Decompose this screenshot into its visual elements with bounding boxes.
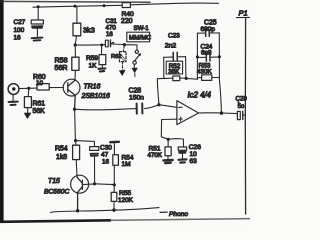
transistor T15 [71, 175, 95, 210]
junction: R55 / bottom rail [112, 208, 115, 211]
svg-text:100: 100 [14, 27, 25, 34]
junction: 3k3 / R58 / C31 wire [74, 43, 77, 46]
wire: plus input path [161, 119, 177, 139]
ground (jack) [12, 94, 14, 101]
wire to switch [124, 45, 137, 50]
op-amp IC2 [177, 101, 199, 125]
wire: node to C31 [75, 44, 105, 46]
junction: rail dot [103, 4, 106, 7]
svg-text:16: 16 [106, 32, 113, 38]
resistor R56 [113, 144, 119, 184]
svg-text:680p: 680p [201, 26, 216, 33]
capacitor C31 [105, 40, 123, 47]
junction: group1/group2 [185, 77, 188, 80]
svg-text:2SB1016: 2SB1016 [81, 93, 111, 100]
svg-text:16: 16 [102, 159, 110, 166]
resistor R62 (dashed) [119, 46, 126, 69]
svg-text:C28: C28 [129, 88, 142, 95]
svg-text:T15: T15 [48, 178, 60, 185]
junction: R59 top [100, 44, 103, 47]
ground arrow (R61) [24, 113, 30, 118]
svg-text:63: 63 [190, 158, 198, 165]
capacitor C30 [76, 141, 99, 184]
capacitor C26 [178, 147, 186, 159]
svg-text:C26: C26 [189, 144, 201, 151]
junction: rail / 3k3 column [74, 5, 77, 8]
transistor TR16 [63, 79, 80, 109]
svg-text:56R: 56R [55, 64, 68, 72]
svg-text:3k3: 3k3 [83, 26, 95, 35]
junction: C24 branch dots [196, 55, 199, 58]
capacitor C25 [197, 30, 219, 37]
svg-text:470K: 470K [148, 152, 163, 159]
node: group1 rails [164, 57, 186, 78]
svg-text:TR16: TR16 [84, 84, 101, 91]
svg-text:SW-1: SW-1 [134, 25, 150, 32]
page top border [0, 0, 150, 3]
svg-text:430K: 430K [197, 69, 213, 76]
capacitor C28 [137, 103, 159, 113]
resistor R52 [173, 76, 180, 81]
svg-text:10: 10 [36, 80, 44, 87]
resistor R61 [24, 88, 31, 113]
node P1 underline [237, 16, 251, 18]
resistor 3k3 [73, 7, 81, 45]
junction: C28 / feedback / op-amp minus [157, 103, 160, 106]
svg-text:C30: C30 [100, 145, 112, 152]
capacitor C29 [237, 111, 245, 119]
capacitor C27 [31, 7, 43, 37]
svg-text:R54: R54 [55, 146, 68, 153]
svg-text:C27: C27 [14, 19, 26, 26]
resistor R55 [111, 185, 117, 210]
wire: group1 to group2 [186, 77, 197, 80]
ground (R59) [98, 68, 105, 71]
junction: TR16 collector / C28 wire / lower column [73, 108, 76, 111]
resistor R60 [29, 84, 63, 90]
svg-text:Phono: Phono [169, 211, 188, 218]
svg-text:BC560C: BC560C [44, 189, 69, 196]
resistor R40 [122, 3, 130, 8]
junction: base wire / R56 / R55 [113, 183, 116, 186]
svg-text:6n8: 6n8 [201, 50, 212, 57]
svg-text:16: 16 [14, 34, 22, 41]
svg-text:R61: R61 [33, 101, 46, 108]
capacitor C23 [164, 52, 186, 60]
page bottom border [0, 220, 110, 222]
ground (R51) [163, 160, 172, 163]
svg-text:36K: 36K [168, 69, 180, 76]
junction: C31 / R62 / switch [123, 43, 126, 46]
wire: bottom rail [51, 208, 160, 213]
junction: T15 / bottom rail [76, 209, 79, 212]
svg-text:56K: 56K [33, 108, 46, 115]
svg-text:150n: 150n [129, 95, 144, 102]
switch MM/MC box [127, 32, 150, 42]
R52 label box [166, 61, 182, 74]
wire: junction up to feedback network [157, 79, 159, 105]
junction: jack / R61 / R60 [27, 87, 30, 90]
wire: top supply rail [33, 3, 219, 7]
resistor R58 [72, 45, 79, 79]
svg-text:R40: R40 [122, 11, 135, 18]
node: group2 rails [197, 33, 219, 80]
svg-text:P1: P1 [239, 9, 248, 18]
wire: op-amp output [199, 112, 238, 115]
wire: base to R56/R55 column [95, 183, 114, 186]
ground (C27) [32, 38, 43, 41]
junction: C30 / base wire [93, 182, 96, 185]
svg-text:MM/MC: MM/MC [129, 35, 151, 42]
svg-text:R55: R55 [119, 190, 131, 197]
svg-text:1M: 1M [122, 161, 131, 168]
junction: plus node [167, 138, 170, 141]
resistor R59 [99, 45, 106, 68]
svg-text:2n2: 2n2 [165, 43, 177, 50]
svg-text:470: 470 [106, 25, 117, 32]
svg-text:5o: 5o [238, 104, 245, 110]
ground (C26) [178, 159, 186, 162]
wire: group2 down to output [219, 80, 221, 113]
svg-text:10: 10 [190, 151, 198, 158]
resistor R54 [73, 109, 80, 176]
svg-text:47: 47 [101, 152, 109, 159]
svg-text:1k8: 1k8 [56, 154, 67, 161]
ground arrow (R62) [119, 70, 125, 75]
svg-text:C29: C29 [236, 96, 248, 103]
ground arrow (switch) [132, 68, 137, 73]
node Phono label [160, 211, 167, 213]
wire: feedback bottom left [157, 77, 172, 80]
wire: plus node down and split [168, 139, 183, 147]
svg-text:R59: R59 [86, 55, 98, 62]
svg-text:C23: C23 [168, 33, 180, 40]
wire: TR16 to C28 [75, 109, 136, 110]
junction: output / feedback [220, 111, 223, 114]
page right frame line [244, 19, 246, 215]
ground bar (R56 top) [110, 141, 119, 144]
input jack J1 [8, 84, 29, 95]
resistor R51 [165, 147, 171, 159]
svg-text:Ic2 4/4: Ic2 4/4 [188, 91, 212, 100]
svg-text:1K: 1K [89, 63, 98, 70]
page left border [0, 0, 4, 223]
svg-text:220: 220 [121, 18, 133, 25]
wire: junction to minus input [159, 105, 177, 108]
resistor R53 [197, 75, 219, 81]
capacitor C24 [197, 53, 219, 61]
switch SW-1 [133, 50, 140, 68]
svg-text:R62: R62 [111, 54, 122, 60]
svg-text:120K: 120K [118, 197, 134, 204]
junction: rail / C27 [37, 5, 40, 8]
